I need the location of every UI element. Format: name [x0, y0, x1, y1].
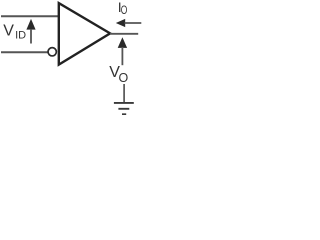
- arrow IO (current, pointing left into output): [116, 19, 142, 27]
- ground: [114, 103, 134, 114]
- label IO: [118, 0, 127, 17]
- svg-text:ID: ID: [15, 29, 26, 41]
- wire: bottom input (inverting): [1, 51, 48, 53]
- wire: output: [110, 33, 138, 35]
- arrow VO (up, pointing at output wire): [118, 37, 127, 65]
- wire: VO reference down to ground: [123, 84, 125, 103]
- svg-text:V: V: [3, 22, 14, 39]
- wire: top input (non-inverting): [1, 15, 59, 17]
- op-amp U1 (comparator triangle): [59, 3, 110, 65]
- label VID: [3, 22, 26, 41]
- label VO: [109, 64, 128, 85]
- svg-text:O: O: [121, 3, 128, 17]
- svg-text:O: O: [119, 71, 129, 85]
- inversion bubble on inverting input: [48, 48, 56, 56]
- arrow VID (up, between input wires): [26, 19, 35, 44]
